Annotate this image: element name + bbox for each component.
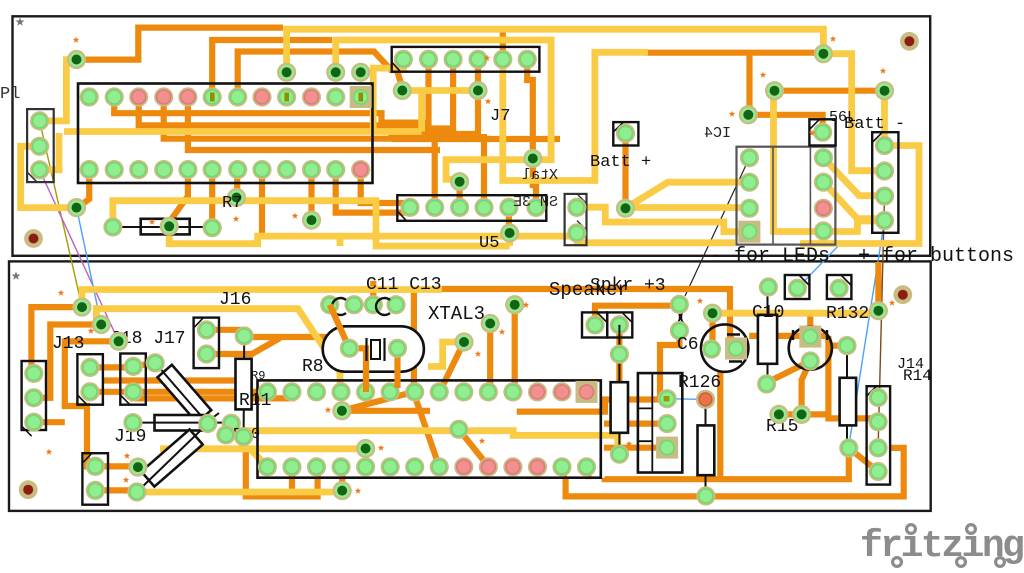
via <box>67 198 86 217</box>
via <box>351 63 370 82</box>
wire <box>616 325 622 381</box>
connector U5 pads <box>400 198 545 217</box>
drill mark <box>729 111 735 117</box>
via <box>814 44 833 63</box>
connector Batt- outline <box>872 132 898 233</box>
svg-text:C11 C13: C11 C13 <box>366 275 442 295</box>
svg-text:J16: J16 <box>219 290 251 310</box>
wire <box>432 129 438 208</box>
via <box>616 199 635 218</box>
wire <box>533 159 536 208</box>
IC4 square pad <box>738 221 760 243</box>
via <box>356 439 375 458</box>
connector J11 outline <box>565 194 587 245</box>
node pad <box>449 420 468 439</box>
wire <box>394 348 400 388</box>
node pad <box>216 425 235 444</box>
wire <box>342 408 430 414</box>
drill mark <box>73 37 79 43</box>
wire <box>881 91 888 146</box>
svg-text:+ for buttons: + for buttons <box>858 245 1014 268</box>
wire <box>779 411 802 417</box>
drill mark <box>124 453 130 459</box>
wire <box>392 136 561 142</box>
connector J17 pads <box>124 357 143 402</box>
wire <box>349 348 366 392</box>
wire <box>746 53 752 115</box>
wire <box>800 146 919 244</box>
ratsnest wire <box>40 121 82 307</box>
svg-text:J13: J13 <box>52 334 84 354</box>
wire <box>561 467 567 477</box>
wire <box>517 400 667 412</box>
wire <box>64 128 422 135</box>
mounting hole <box>24 229 43 248</box>
wire <box>823 54 884 171</box>
wire <box>207 330 245 336</box>
via <box>326 63 345 82</box>
drill mark <box>46 449 52 455</box>
wire <box>487 324 493 393</box>
wire <box>713 310 879 317</box>
resistor R11 leads <box>243 336 246 437</box>
drill mark <box>479 438 485 444</box>
connector U5 outline <box>397 195 546 221</box>
wire <box>802 361 811 414</box>
drill mark <box>523 302 529 308</box>
resistor R9 pads <box>146 353 165 372</box>
wire <box>506 207 512 233</box>
resistor R7 leads <box>114 226 212 228</box>
via <box>302 211 321 230</box>
board B (bottom PCB) <box>9 261 931 511</box>
wire <box>660 331 679 399</box>
wire <box>337 236 344 246</box>
connector IC4 pads <box>740 148 759 218</box>
svg-text:R132: R132 <box>826 304 869 324</box>
wire <box>373 59 403 131</box>
wire <box>34 325 101 398</box>
connector J19 outline <box>82 453 108 505</box>
capacitor C6 pads <box>670 295 689 340</box>
wire <box>440 342 464 392</box>
via <box>393 81 412 100</box>
resistor R10 body <box>155 415 204 431</box>
wire <box>114 61 428 123</box>
connector J11 pads <box>567 198 586 243</box>
svg-text:XTAL3: XTAL3 <box>428 303 485 325</box>
wire <box>133 363 155 367</box>
via <box>765 81 784 100</box>
connector top square pad <box>830 279 849 298</box>
wire <box>506 233 513 246</box>
wire <box>709 313 715 349</box>
wire <box>604 445 667 451</box>
connector J18 pads <box>80 358 99 402</box>
connector Spkr square 2 <box>607 312 632 337</box>
drill mark <box>697 298 703 304</box>
mounting hole <box>19 480 38 499</box>
resistor R17 body (diagonal) <box>141 429 202 486</box>
wire <box>207 338 281 354</box>
wire <box>34 419 65 425</box>
wire <box>645 50 823 56</box>
connector Batt- pads <box>875 136 894 230</box>
wire <box>164 61 478 139</box>
transistor Q1 outline <box>701 324 748 371</box>
capacitor C13 arc <box>376 298 390 315</box>
wire <box>418 91 425 132</box>
wire <box>139 61 453 129</box>
wire <box>442 289 734 338</box>
fiducial mark <box>12 271 21 279</box>
via <box>332 401 351 420</box>
via <box>869 301 888 320</box>
IC U2 top pad row <box>80 87 371 106</box>
connector top square pad <box>788 279 807 298</box>
resistor R12 leads <box>705 399 707 496</box>
wire <box>595 306 679 325</box>
wire <box>188 97 440 150</box>
resistor R12 pads <box>696 390 716 506</box>
crystal XTAL3 outline <box>323 326 424 371</box>
wire <box>113 201 510 246</box>
capacitor C11 C13 pads <box>320 295 406 314</box>
wire <box>807 313 813 337</box>
connector J13 outline <box>22 361 46 430</box>
via <box>769 405 788 424</box>
wire <box>31 307 82 373</box>
wire <box>250 449 267 467</box>
connector J14 outline <box>867 386 891 484</box>
transistor Q1 square pad <box>725 338 747 360</box>
wire <box>244 437 318 497</box>
wire <box>457 182 463 208</box>
wire <box>170 170 188 221</box>
via <box>128 458 147 477</box>
connector J15 square pad <box>656 437 678 459</box>
drill mark <box>880 68 886 74</box>
wire <box>21 146 73 207</box>
via <box>703 304 722 323</box>
transistor Q1 pad <box>702 340 721 359</box>
wire <box>234 170 240 194</box>
drill mark <box>149 219 155 225</box>
connector Spkr square 1 <box>582 312 607 337</box>
wire <box>774 91 824 232</box>
wire <box>585 467 591 479</box>
IC U2 DIP outline <box>78 84 373 184</box>
ratsnest wire <box>40 170 119 341</box>
resistor R16 body <box>840 378 857 426</box>
wire <box>823 182 884 219</box>
resistor R11 body <box>236 359 252 410</box>
wire <box>330 305 350 349</box>
connector J18 outline <box>77 354 103 405</box>
svg-text:C6: C6 <box>677 335 699 355</box>
svg-text:- for LEDs: - for LEDs <box>710 245 830 268</box>
connector J15 pads <box>658 389 677 433</box>
drill mark <box>626 441 632 447</box>
via <box>109 332 128 351</box>
via <box>450 172 469 191</box>
wire <box>90 389 267 395</box>
drill mark <box>292 213 298 219</box>
svg-text:C10: C10 <box>752 303 784 323</box>
wire <box>630 204 749 211</box>
wire <box>137 489 342 496</box>
wire <box>342 392 414 411</box>
svg-text:R11: R11 <box>239 391 271 411</box>
wire <box>90 364 133 370</box>
via <box>481 314 500 333</box>
wire <box>82 290 442 308</box>
resistor R9 leads <box>155 363 208 424</box>
wire <box>160 445 366 452</box>
drill mark <box>475 351 481 357</box>
connector top square 1 <box>785 275 810 299</box>
drill mark <box>88 328 94 334</box>
drill mark <box>809 130 815 136</box>
svg-text:U5: U5 <box>479 234 499 253</box>
connector J17 outline <box>120 354 146 405</box>
svg-text:R14: R14 <box>903 367 932 385</box>
connector J1 outline <box>27 109 54 182</box>
wire <box>566 448 904 497</box>
wire <box>77 28 284 60</box>
drill mark <box>58 290 64 296</box>
wire <box>308 170 314 221</box>
drill mark <box>378 445 384 451</box>
pin marker <box>284 93 289 102</box>
IC U1 DIP outline <box>258 380 601 477</box>
wire <box>259 170 265 233</box>
capacitor C6 arcs <box>675 309 686 325</box>
wire <box>503 52 648 180</box>
transistor Q2 square pad <box>799 326 821 348</box>
resistor R7 pads <box>103 217 221 237</box>
connector J15 outline <box>638 373 682 472</box>
connector 56L square outline <box>809 119 835 145</box>
via <box>92 315 111 334</box>
connector Spkr pads <box>585 315 629 334</box>
wire <box>229 431 618 456</box>
wire <box>748 115 822 131</box>
ratsnest wire <box>797 243 841 288</box>
drill mark <box>484 55 490 61</box>
wire <box>238 52 403 98</box>
wire <box>849 448 878 472</box>
connector 56L pads <box>813 123 833 241</box>
wire <box>577 207 749 232</box>
resistor R16 leads <box>846 346 848 448</box>
svg-text:R7: R7 <box>222 194 242 213</box>
via <box>505 295 524 314</box>
resistor R13 leads <box>618 325 620 454</box>
drill mark <box>233 216 239 222</box>
IC U1 pin14 square pad <box>576 381 598 403</box>
crystal XTAL3 glyph <box>367 338 385 361</box>
connector IC4 outline <box>737 147 836 245</box>
resistor R13 pads <box>610 345 629 464</box>
ratsnest wire <box>878 196 884 448</box>
wire <box>65 341 119 466</box>
wire <box>40 133 59 170</box>
capacitor C10 body <box>758 315 777 364</box>
capacitor C10 leads <box>767 287 769 384</box>
wire <box>828 343 847 349</box>
pin marker <box>210 93 215 102</box>
wire <box>828 336 878 419</box>
wire <box>823 158 884 196</box>
mounting hole <box>893 285 912 304</box>
wire <box>749 333 828 339</box>
wire <box>336 40 551 179</box>
via <box>875 81 894 100</box>
wire <box>875 262 881 311</box>
connector J7 outline <box>392 47 540 72</box>
connector J16 outline <box>194 318 219 369</box>
svg-text:R8: R8 <box>302 357 324 377</box>
wire <box>336 170 404 213</box>
svg-text:J7: J7 <box>490 107 510 126</box>
resistor R11 pads <box>234 326 254 446</box>
wire <box>527 59 533 158</box>
drill mark <box>830 36 836 42</box>
resistor R7 body <box>141 219 190 235</box>
via <box>523 149 542 168</box>
wire <box>212 40 332 97</box>
via <box>160 217 179 236</box>
wire <box>95 463 138 469</box>
wire <box>428 342 464 367</box>
wire <box>622 133 628 208</box>
wire <box>361 170 404 203</box>
IC U1 bottom pad row <box>258 457 596 476</box>
wire <box>289 467 295 496</box>
wire <box>577 235 735 243</box>
wire <box>402 87 478 94</box>
wire <box>717 372 723 479</box>
via <box>227 188 246 207</box>
resistor R9 body <box>158 365 212 423</box>
svg-text:Batt +: Batt + <box>590 153 651 172</box>
drill mark <box>760 72 766 78</box>
capacitor C11 arc <box>332 298 346 315</box>
wire <box>169 226 573 243</box>
wire <box>413 392 439 467</box>
drill mark <box>325 407 331 413</box>
resistor R13 body <box>611 382 628 433</box>
svg-text:Pl: Pl <box>0 85 20 104</box>
mounting hole <box>900 32 919 51</box>
via <box>67 50 86 69</box>
connector top square 2 <box>827 275 852 299</box>
svg-text:R126: R126 <box>678 373 721 393</box>
ratsnest wire <box>849 221 885 447</box>
drill mark <box>355 488 361 494</box>
connector J16 pads <box>197 320 216 363</box>
ratsnest wire <box>77 208 102 325</box>
drill mark <box>889 300 895 306</box>
via <box>500 223 519 242</box>
wire <box>512 305 518 392</box>
resistor R10 leads <box>133 413 231 428</box>
connector J1 pads <box>30 111 49 179</box>
transistor Q2 pad <box>801 351 820 370</box>
svg-text:SM 3E: SM 3E <box>513 194 558 211</box>
wire <box>370 281 376 305</box>
svg-text:Spkr +3: Spkr +3 <box>590 276 666 296</box>
via <box>277 63 296 82</box>
via <box>72 298 91 317</box>
Batt+ square pad outline <box>613 122 638 145</box>
wire <box>78 170 90 208</box>
IC U1 top pad row <box>258 382 596 401</box>
fiducial mark <box>16 17 25 25</box>
wire <box>629 182 749 206</box>
pin marker <box>359 93 364 102</box>
transistor Q2 outline <box>789 327 832 370</box>
connector J13 pads <box>24 364 43 432</box>
wire <box>40 60 73 121</box>
crystal XTAL3 pads <box>340 339 407 358</box>
wire <box>500 30 506 59</box>
wire <box>209 170 215 228</box>
resistor R17 pads <box>127 414 217 502</box>
wire <box>459 429 489 467</box>
wire <box>411 289 417 392</box>
ratsnest wire <box>667 398 705 401</box>
svg-text:R9: R9 <box>251 369 265 383</box>
wire <box>287 29 824 72</box>
via <box>333 481 352 500</box>
wire <box>339 467 345 491</box>
capacitor C10 pads <box>757 277 778 393</box>
wire <box>775 88 885 94</box>
via <box>468 81 487 100</box>
wire <box>802 411 829 417</box>
wire <box>103 377 236 383</box>
via <box>792 405 811 424</box>
wire <box>604 421 667 427</box>
resistor R17 leads <box>137 424 208 493</box>
via <box>454 332 473 351</box>
wire <box>823 221 884 232</box>
svg-text:IC4: IC4 <box>704 125 731 142</box>
resistor R10 pads <box>123 413 241 433</box>
resistor R16 pads <box>837 336 858 458</box>
drill mark <box>123 477 129 483</box>
resistor R12 body <box>698 425 715 475</box>
connector J14 pads <box>869 388 888 481</box>
wire <box>481 134 487 207</box>
wire <box>605 448 849 479</box>
via <box>739 105 758 124</box>
connector J7 pads <box>394 50 537 69</box>
drill mark <box>485 98 491 104</box>
svg-text:Xtal: Xtal <box>522 167 558 184</box>
connector J19 pads <box>86 457 105 500</box>
wire <box>133 392 292 399</box>
IC U2 pin 12 square pad <box>350 86 372 108</box>
Batt+ pad <box>616 124 635 143</box>
drill mark <box>499 329 505 335</box>
board A (top PCB) <box>13 16 931 256</box>
ratsnest wire <box>685 158 749 296</box>
wire <box>764 361 811 384</box>
IC U2 bottom pad row <box>80 160 371 179</box>
